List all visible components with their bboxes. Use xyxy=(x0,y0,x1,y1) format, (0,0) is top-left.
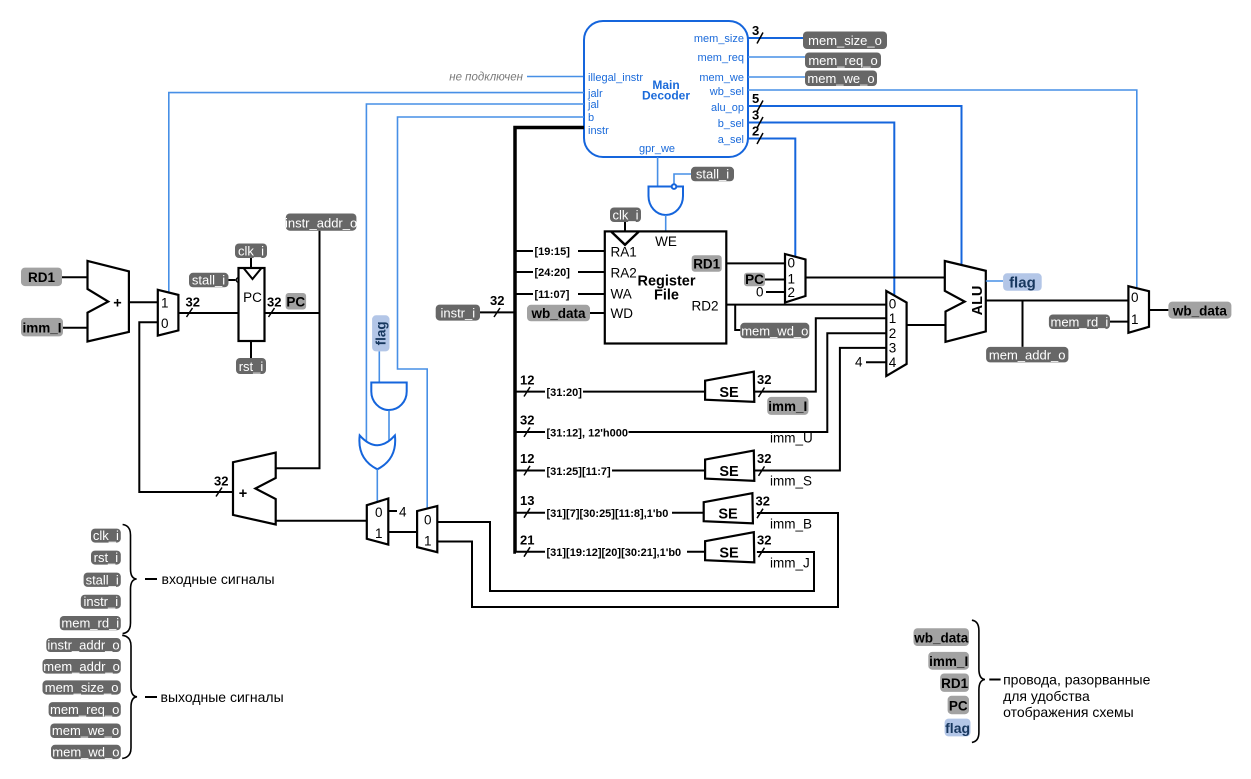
label PC (broken wire) xyxy=(286,293,307,310)
adder A2 (PC+offset) xyxy=(233,453,276,525)
svg-text:[31:12], 12'h000: [31:12], 12'h000 xyxy=(547,427,629,439)
wire SE2 out 32 to mux b input3 xyxy=(754,348,886,476)
svg-text:clk_i: clk_i xyxy=(612,208,638,223)
svg-text:4: 4 xyxy=(889,355,897,370)
wire muxA out xyxy=(806,277,945,279)
wire SE4 out 32 (imm_J) xyxy=(757,533,771,558)
svg-text:mem_we_o: mem_we_o xyxy=(807,71,874,86)
svg-text:imm_I: imm_I xyxy=(22,320,61,335)
svg-text:mem_rd_i: mem_rd_i xyxy=(1051,315,1109,330)
label clk_i (RF) xyxy=(610,208,641,223)
svg-text:mem_addr_o: mem_addr_o xyxy=(989,347,1066,362)
svg-text:отображения схемы: отображения схемы xyxy=(1003,704,1134,720)
wire stall to PC with bubble xyxy=(229,278,241,283)
svg-text:2: 2 xyxy=(788,285,796,300)
wire mux2 out to mux1 xyxy=(388,531,417,533)
svg-text:instr_i: instr_i xyxy=(440,306,475,321)
wire [11:07] to WA xyxy=(515,287,605,301)
legend output: label mem_req_o xyxy=(49,702,121,717)
OR gate U_JMP xyxy=(359,435,395,469)
svg-text:SE: SE xyxy=(719,464,739,480)
mux M_OFF (4/imm) xyxy=(367,499,389,545)
legend output: label mem_wd_o xyxy=(51,744,121,759)
svg-text:rst_i: rst_i xyxy=(94,550,119,565)
wire mem_req xyxy=(748,56,805,58)
svg-text:0: 0 xyxy=(161,316,169,331)
svg-text:mem_size_o: mem_size_o xyxy=(808,33,882,48)
constant 0 xyxy=(756,285,785,300)
svg-text:imm_U: imm_U xyxy=(770,431,813,446)
wire instr_addr vertical xyxy=(276,231,320,469)
wire a_sel 2-bit xyxy=(748,124,795,257)
register PC xyxy=(239,268,265,341)
svg-text:stall_i: stall_i xyxy=(696,167,729,182)
sign extend SE1 (imm_I) xyxy=(705,372,754,402)
svg-text:[11:07]: [11:07] xyxy=(535,289,570,301)
svg-text:WD: WD xyxy=(611,306,634,321)
svg-text:[31][19:12][20][30:21],1'b0: [31][19:12][20][30:21],1'b0 xyxy=(547,547,682,559)
svg-text:входные сигналы: входные сигналы xyxy=(162,571,275,587)
svg-text:mem_addr_o: mem_addr_o xyxy=(43,659,120,674)
wire rst to PC xyxy=(250,341,252,358)
mux M_WB (wb_sel) xyxy=(1128,286,1149,333)
brace broken wires xyxy=(972,620,985,742)
svg-text:32: 32 xyxy=(186,295,200,310)
wire mem_we xyxy=(748,76,805,78)
svg-text:0: 0 xyxy=(375,505,383,520)
wire imm_U to mux b input2 xyxy=(629,333,887,432)
wire instr bus xyxy=(515,128,584,553)
legend output: label mem_we_o xyxy=(50,723,121,738)
wire b xyxy=(398,117,585,509)
svg-text:imm_I: imm_I xyxy=(768,399,807,414)
svg-text:File: File xyxy=(654,288,679,304)
label instr_addr_o xyxy=(285,214,357,231)
svg-text:32: 32 xyxy=(757,372,771,387)
legend input: label stall_i xyxy=(84,572,121,587)
svg-text:RA2: RA2 xyxy=(611,266,637,281)
label mem_rd_i xyxy=(1049,315,1110,330)
legend broken: label RD1 xyxy=(940,674,969,692)
svg-text:12: 12 xyxy=(520,451,534,466)
wire imm_J to mux input 0 xyxy=(437,522,814,591)
svg-text:0: 0 xyxy=(889,297,897,312)
wire [24:20] to RA2 xyxy=(515,265,605,279)
svg-text:WE: WE xyxy=(655,234,677,249)
svg-text:3: 3 xyxy=(752,23,759,38)
label instr_i xyxy=(436,293,515,321)
wire AND out xyxy=(388,411,390,443)
svg-text:для удобства: для удобства xyxy=(1003,688,1090,704)
svg-text:32: 32 xyxy=(490,293,504,308)
svg-text:3: 3 xyxy=(889,341,897,356)
svg-text:32: 32 xyxy=(756,494,770,509)
wire clk to PC xyxy=(250,258,252,268)
legend input: label mem_rd_i xyxy=(60,616,121,631)
svg-text:PC: PC xyxy=(243,290,262,305)
label clk_i (PC) xyxy=(235,244,267,259)
svg-text:clk_i: clk_i xyxy=(93,528,119,543)
svg-text:wb_sel: wb_sel xyxy=(709,86,744,98)
label mem_wd_o xyxy=(740,323,809,339)
wire to mem_addr_o xyxy=(1022,301,1024,347)
label flag (broken wire, rotated) xyxy=(372,315,389,351)
svg-text:alu_op: alu_op xyxy=(711,102,744,114)
svg-text:SE: SE xyxy=(719,385,739,401)
svg-text:провода, разорванные: провода, разорванные xyxy=(1003,672,1150,688)
brace inputs xyxy=(123,525,137,634)
svg-text:mem_req_o: mem_req_o xyxy=(808,53,877,68)
svg-text:b_sel: b_sel xyxy=(718,118,744,130)
wire flag out xyxy=(986,280,1003,282)
wire RD1 to mux xyxy=(726,262,785,264)
constant 4 (mux b) xyxy=(855,355,886,370)
wire RD2 out xyxy=(726,304,886,306)
label wb_data (broken wire) xyxy=(527,305,605,322)
svg-text:5: 5 xyxy=(752,91,759,106)
svg-text:flag: flag xyxy=(374,321,389,345)
legend input: label instr_i xyxy=(81,594,121,609)
wire mux1 out to adder2 xyxy=(276,520,367,522)
label stall_i (PC) xyxy=(189,273,229,288)
wire b_sel 3-bit xyxy=(748,108,894,296)
svg-text:wb_data: wb_data xyxy=(530,306,586,321)
svg-text:32: 32 xyxy=(214,474,228,489)
svg-text:jal: jal xyxy=(587,99,599,111)
wire wb_sel xyxy=(748,90,1137,289)
wire mem_size 3-bit xyxy=(748,23,803,44)
svg-text:SE: SE xyxy=(718,507,738,523)
wire imm_I to adder xyxy=(63,327,88,329)
svg-text:не подключен: не подключен xyxy=(449,72,523,84)
svg-text:mem_we_o: mem_we_o xyxy=(52,723,119,738)
label PC (to a mux) xyxy=(744,272,785,287)
wire imm_J tap 21-bit xyxy=(515,533,705,560)
svg-text:21: 21 xyxy=(520,533,534,548)
wire imm_B tap 13-bit xyxy=(515,493,704,520)
svg-text:RD2: RD2 xyxy=(691,299,718,314)
legend text broken wires xyxy=(989,672,1150,720)
label RD1 (RF output, broken wire) xyxy=(692,255,722,272)
wire imm_I tap [31:20] 12-bit xyxy=(515,373,705,400)
adder A1 (RD1+imm_I) xyxy=(88,261,129,342)
legend output: label mem_addr_o xyxy=(43,659,121,674)
svg-text:flag: flag xyxy=(945,720,970,736)
legend input: label rst_i xyxy=(91,550,121,565)
svg-text:instr: instr xyxy=(588,125,609,137)
constant 4 xyxy=(388,505,407,520)
brace outputs xyxy=(122,635,137,758)
mux M_JALR (1/0) xyxy=(158,290,179,336)
wire muxB out xyxy=(907,324,945,326)
label mem_size_o xyxy=(803,32,887,50)
svg-text:1: 1 xyxy=(375,526,383,541)
svg-text:4: 4 xyxy=(399,505,407,520)
wire wb out xyxy=(1149,309,1168,311)
wire flag to AND xyxy=(378,351,380,382)
label mem_req_o xyxy=(805,53,881,69)
wire ALU result xyxy=(986,300,1129,302)
svg-text:1: 1 xyxy=(424,534,432,549)
svg-text:mem_req: mem_req xyxy=(698,52,744,64)
svg-text:12: 12 xyxy=(520,373,534,388)
legend broken: label wb_data xyxy=(913,628,969,646)
svg-text:1: 1 xyxy=(161,296,169,311)
svg-text:PC: PC xyxy=(286,294,305,309)
wire imm_B to mux input 1 xyxy=(437,513,838,607)
legend broken: label PC xyxy=(948,696,969,714)
svg-text:+: + xyxy=(113,296,121,312)
svg-text:0: 0 xyxy=(424,513,432,528)
svg-text:wb_data: wb_data xyxy=(1172,303,1228,318)
AND gate U_WE (write enable) xyxy=(649,184,684,215)
wire jalr xyxy=(169,93,584,293)
svg-text:0: 0 xyxy=(788,256,796,271)
svg-text:WA: WA xyxy=(611,287,632,302)
wire [19:15] to RA1 xyxy=(515,244,605,258)
wire WE xyxy=(665,215,667,231)
svg-text:instr_addr_o: instr_addr_o xyxy=(285,215,357,230)
label wb_data (output) xyxy=(1168,302,1231,319)
sign extend SE3 (imm_B) xyxy=(704,493,753,523)
legend output: label mem_size_o xyxy=(43,680,121,695)
svg-text:instr_i: instr_i xyxy=(83,594,118,609)
svg-text:mem_rd_i: mem_rd_i xyxy=(61,616,119,631)
svg-text:mem_wd_o: mem_wd_o xyxy=(741,323,808,338)
svg-text:Decoder: Decoder xyxy=(642,89,690,103)
wire mux out 32 xyxy=(178,295,239,318)
svg-text:RA1: RA1 xyxy=(611,245,637,260)
ALU U_ALU xyxy=(945,261,986,342)
svg-text:stall_i: stall_i xyxy=(86,572,119,587)
svg-text:32: 32 xyxy=(757,533,771,548)
svg-text:flag: flag xyxy=(1009,274,1036,291)
svg-text:instr_addr_o: instr_addr_o xyxy=(47,638,119,653)
svg-text:4: 4 xyxy=(855,355,863,370)
svg-text:mem_wd_o: mem_wd_o xyxy=(52,744,119,759)
label rst_i xyxy=(236,358,266,374)
mux M_JMP (immB/immJ) xyxy=(417,506,437,552)
svg-text:illegal_instr: illegal_instr xyxy=(588,72,643,84)
mux M_B (b_sel) xyxy=(886,291,906,376)
register file U_RF xyxy=(605,231,727,343)
wire PC out 32 xyxy=(265,295,320,318)
svg-text:SE: SE xyxy=(719,546,739,562)
svg-text:mem_req_o: mem_req_o xyxy=(50,702,119,717)
svg-text:0: 0 xyxy=(1131,290,1139,305)
sign extend SE4 (imm_J) xyxy=(705,532,754,562)
wire SE1 out 32 to mux b input1 xyxy=(754,318,886,397)
wire gpr_we xyxy=(657,157,659,187)
svg-text:stall_i: stall_i xyxy=(192,273,225,288)
svg-text:wb_data: wb_data xyxy=(913,631,969,646)
svg-text:gpr_we: gpr_we xyxy=(639,143,675,155)
svg-text:[24:20]: [24:20] xyxy=(535,267,571,279)
svg-text:RD1: RD1 xyxy=(693,257,720,272)
svg-text:[31:25][11:7]: [31:25][11:7] xyxy=(547,466,612,478)
label imm_I (broken wire out) xyxy=(767,397,808,415)
svg-text:[31][7][30:25][11:8],1'b0: [31][7][30:25][11:8],1'b0 xyxy=(547,508,669,520)
svg-text:imm_I: imm_I xyxy=(929,654,968,669)
wire jal xyxy=(366,104,584,442)
label mem_we_o xyxy=(805,71,877,87)
svg-text:mem_size: mem_size xyxy=(694,33,744,45)
svg-text:0: 0 xyxy=(756,285,764,300)
label flag xyxy=(1003,273,1042,291)
svg-text:32: 32 xyxy=(267,295,281,310)
AND gate U_BR (branch) xyxy=(371,383,406,411)
svg-text:1: 1 xyxy=(1131,312,1139,327)
wire SE3 out 32 (imm_B) xyxy=(756,494,770,519)
svg-text:выходные сигналы: выходные сигналы xyxy=(161,689,284,705)
legend broken: label flag xyxy=(945,719,971,737)
wire clk to RF xyxy=(624,222,626,231)
wire adder1 out xyxy=(129,301,158,303)
wire illegal_instr (not connected) xyxy=(449,72,584,84)
svg-text:rst_i: rst_i xyxy=(239,359,264,374)
svg-text:[19:15]: [19:15] xyxy=(535,246,571,258)
sign extend SE2 (imm_S) xyxy=(705,451,754,481)
label mem_addr_o xyxy=(986,347,1068,363)
svg-text:a_sel: a_sel xyxy=(718,134,744,146)
svg-text:clk_i: clk_i xyxy=(238,244,264,259)
wire RD1 to adder xyxy=(62,276,88,278)
svg-text:mem_we: mem_we xyxy=(699,72,744,84)
svg-text:imm_S: imm_S xyxy=(770,474,812,489)
svg-text:RD1: RD1 xyxy=(941,676,968,691)
wire adder2 out 32 xyxy=(139,322,233,496)
wire imm_U tap [31:12] 32-bit xyxy=(515,413,629,440)
wire OR out xyxy=(376,469,378,501)
wire imm_S tap [31:25][11:7] 12-bit xyxy=(515,451,705,478)
label imm_I (broken wire) xyxy=(21,318,63,337)
svg-text:ALU: ALU xyxy=(970,286,986,316)
svg-text:13: 13 xyxy=(520,493,534,508)
svg-text:2: 2 xyxy=(752,124,759,139)
svg-text:32: 32 xyxy=(757,451,771,466)
svg-text:[31:20]: [31:20] xyxy=(547,387,583,399)
legend output: label instr_addr_o xyxy=(46,638,121,653)
svg-text:imm_J: imm_J xyxy=(770,556,810,571)
mux M_A (a_sel) xyxy=(785,254,806,303)
legend broken: label imm_I xyxy=(928,652,969,670)
label stall_i (top) xyxy=(691,167,734,182)
wire stall_i to gate xyxy=(674,174,691,184)
wire mem_rd to mux xyxy=(1110,321,1128,323)
svg-text:b: b xyxy=(588,112,594,124)
svg-text:32: 32 xyxy=(520,413,534,428)
legend input: label clk_i xyxy=(91,528,121,543)
svg-text:RD1: RD1 xyxy=(28,270,55,285)
wire to mem_wd_o xyxy=(735,305,740,330)
wire alu_op 5-bit xyxy=(748,91,962,265)
svg-text:2: 2 xyxy=(889,326,897,341)
legend text inputs xyxy=(145,571,275,587)
legend text outputs xyxy=(145,689,284,705)
label RD1 (broken wire) xyxy=(21,268,62,287)
svg-text:+: + xyxy=(239,486,247,502)
svg-text:PC: PC xyxy=(949,699,968,714)
main decoder U_MD xyxy=(584,21,748,157)
svg-text:3: 3 xyxy=(752,108,759,123)
svg-text:imm_B: imm_B xyxy=(770,517,812,532)
svg-text:mem_size_o: mem_size_o xyxy=(45,680,119,695)
svg-text:1: 1 xyxy=(889,311,897,326)
